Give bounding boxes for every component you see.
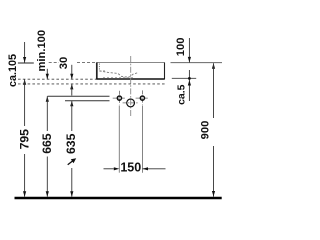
dimension 30 / 635 line with adjust arrow [68,65,77,197]
svg-text:ca.5: ca.5 [176,84,188,105]
svg-text:900: 900 [200,121,212,140]
floor line [15,197,222,200]
svg-text:ca.105: ca.105 [7,54,19,87]
dimension 150 [104,106,166,173]
svg-text:150: 150 [120,161,141,175]
bracket top line right [172,77,196,79]
hidden line lower [18,83,165,85]
rim level tick [18,62,34,64]
dimension min.100 / 665 line [46,69,49,197]
svg-text:min.100: min.100 [36,30,48,72]
svg-text:665: 665 [40,133,54,154]
fixing hole left [113,91,127,105]
tap hole center [123,99,139,107]
svg-text:635: 635 [64,133,78,154]
centerline tap hole [130,56,132,118]
dimension ca.105 / 795 line [23,42,26,197]
rim level dash-dot mid [77,61,97,63]
washbasin side profile [96,63,165,80]
dimension 900 line [212,63,215,197]
reference line 665 [48,95,110,97]
rim level dash-dot left [49,61,59,63]
reference line 635 [65,100,110,102]
svg-text:100: 100 [175,38,187,57]
fixing hole right [136,90,150,104]
dimension 100 / ca.5 line [188,38,191,101]
svg-text:30: 30 [58,57,70,69]
rim level line right [171,62,223,64]
svg-text:795: 795 [18,129,32,150]
hidden line basin underside [18,78,97,80]
